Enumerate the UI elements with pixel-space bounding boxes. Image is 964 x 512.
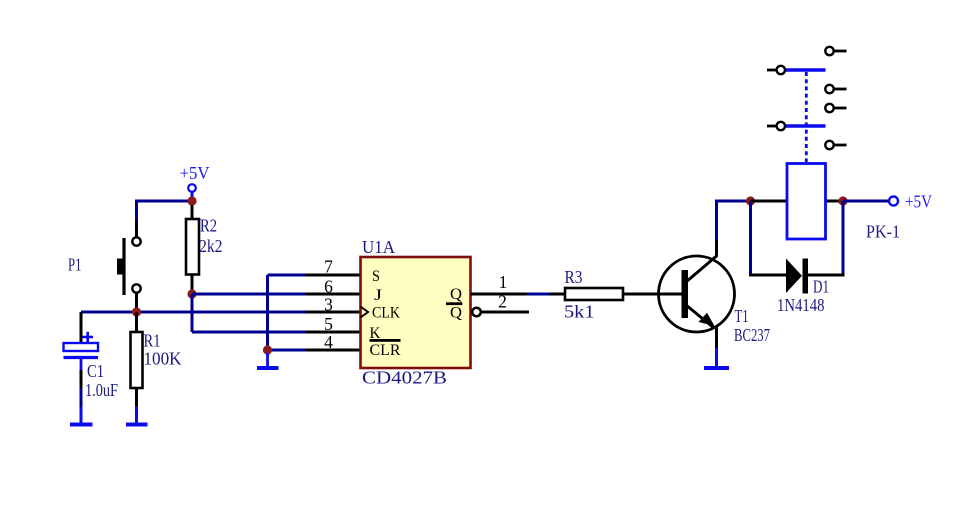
power terminal +5V (left) (180, 163, 210, 198)
svg-text:C1: C1 (87, 361, 104, 381)
svg-text:CD4027B: CD4027B (362, 368, 447, 388)
svg-text:5: 5 (324, 314, 333, 334)
junction dot right of relay (838, 196, 847, 205)
svg-text:Q: Q (450, 305, 462, 322)
clock input triangle (361, 307, 369, 318)
wire S/CLR ground bus (268, 275, 306, 350)
svg-text:J: J (374, 287, 382, 304)
resistor R2 (186, 205, 223, 291)
svg-text:R3: R3 (565, 267, 583, 287)
svg-text:PK-1: PK-1 (866, 222, 900, 242)
ground (T1 emitter) (704, 366, 729, 370)
contact throw terminal 1b (825, 85, 846, 93)
svg-text:1: 1 (499, 272, 508, 292)
power terminal +5V (right) (889, 192, 932, 212)
svg-text:CLR: CLR (370, 342, 401, 359)
contact common terminal 1 (767, 66, 785, 74)
svg-text:CLK: CLK (372, 305, 400, 322)
svg-text:+5V: +5V (905, 192, 932, 212)
svg-text:R1: R1 (144, 331, 161, 351)
svg-text:R2: R2 (200, 216, 217, 236)
pin 4 lead (305, 349, 361, 352)
svg-text:100K: 100K (144, 349, 182, 369)
junction dot at P1/R1/C1 (132, 307, 141, 316)
ground (R1) (126, 423, 148, 427)
svg-text:P1: P1 (68, 255, 82, 275)
wire D1 right leg (842, 201, 845, 277)
contact common terminal 2 (767, 122, 785, 130)
overline of CLR (370, 339, 401, 342)
svg-text:4: 4 (324, 332, 333, 352)
capacitor C1 (64, 312, 119, 423)
svg-text:+5V: +5V (180, 163, 210, 183)
junction dot left of relay (746, 196, 755, 205)
svg-text:1.0uF: 1.0uF (85, 380, 118, 400)
relay coil pin leads (751, 200, 844, 203)
pin 2 bubble (472, 308, 481, 317)
svg-text:U1A: U1A (362, 237, 395, 257)
overline of Q (446, 302, 462, 305)
wire +5V to P1 top (137, 200, 193, 238)
relay contact bar 1 (786, 68, 826, 71)
resistor R3 (564, 267, 623, 322)
wire collector to relay (715, 200, 751, 203)
diode D1 (749, 259, 845, 316)
svg-text:T1: T1 (735, 306, 749, 326)
resistor R1 (131, 312, 182, 423)
contact throw terminal 2b (825, 141, 846, 149)
svg-text:2k2: 2k2 (199, 236, 223, 256)
junction dot at R2 bottom (187, 289, 196, 298)
wire R2 to pin K (192, 294, 305, 332)
wire emitter to ground (715, 327, 718, 366)
svg-text:S: S (372, 268, 380, 285)
pushbutton P1 (68, 237, 141, 309)
wire Q output (527, 293, 549, 296)
wire R3 to base (623, 293, 682, 296)
pin 6 lead (305, 293, 361, 296)
wire relay to +5V terminal (843, 200, 889, 203)
svg-text:D1: D1 (813, 277, 829, 297)
ground (C1) (70, 423, 93, 427)
wire D1 left leg (749, 201, 752, 277)
wire CLK net (81, 311, 305, 314)
wire collector (715, 201, 718, 257)
relay contact bar 2 (786, 124, 826, 127)
junction dot at +5V/R2 (187, 196, 196, 205)
svg-text:5k1: 5k1 (564, 302, 595, 322)
relay actuator dotted link (805, 72, 808, 162)
svg-text:BC237: BC237 (734, 325, 770, 345)
wire R2 to pin J (192, 293, 305, 296)
svg-text:1N4148: 1N4148 (777, 295, 825, 315)
svg-text:3: 3 (324, 295, 333, 315)
transistor T1 (659, 256, 771, 345)
pin 5 lead (305, 331, 361, 334)
svg-text:6: 6 (324, 277, 333, 297)
pin 7 lead (305, 274, 361, 277)
pin 3 lead (305, 311, 361, 314)
contact throw terminal 1a (825, 47, 846, 55)
op-amp U1A flip-flop body (361, 237, 471, 388)
svg-text:7: 7 (324, 257, 333, 277)
pin 2 lead (481, 311, 529, 314)
relay PK-1 coil (787, 164, 900, 242)
svg-text:Q: Q (450, 286, 462, 303)
pin 1 lead (471, 293, 528, 296)
contact throw terminal 2a (825, 104, 846, 112)
ground (bus) (257, 353, 279, 368)
junction dot at bus/ground (263, 345, 272, 354)
